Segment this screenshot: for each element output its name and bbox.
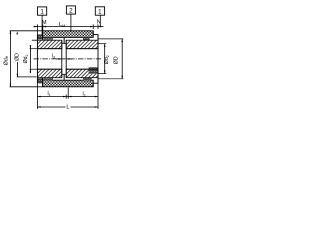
left hub face line [36, 35, 38, 83]
top dimension chain line [34, 26, 104, 28]
sleeve left face line [42, 31, 44, 40]
Od2 extensions [98, 43, 106, 45]
L dimension line [37, 106, 65, 108]
dim line Od1 [29, 45, 31, 73]
box 1 left [38, 7, 47, 15]
OD bottom extension line [17, 76, 37, 78]
bottom mid extension [67, 88, 69, 99]
sleeve teeth strip bottom-right [83, 77, 92, 81]
right hub face line [97, 35, 99, 84]
svg-text:L: L [66, 104, 69, 110]
svg-text:ØD: ØD [113, 56, 119, 64]
OD dim line far right [121, 39, 123, 79]
sleeve teeth strip top-left [43, 37, 53, 39]
center axis dash-dot line [34, 58, 102, 60]
box 2 [66, 6, 75, 14]
l1 l2 dimension line [37, 96, 98, 98]
sleeve teeth strip top-right [83, 37, 90, 40]
svg-text:l2: l2 [82, 92, 85, 98]
svg-text:1: 1 [40, 9, 44, 16]
svg-text:l1: l1 [47, 91, 50, 97]
sleeve center rib top [62, 43, 66, 44]
sleeve top band crosshatch [43, 31, 94, 38]
left hub flange hatch bottom [37, 69, 61, 78]
l3 gap dimension arrows on axis [59, 58, 62, 60]
Od1 extensions [30, 48, 38, 50]
svg-text:N: N [97, 19, 101, 25]
right hub collar top outline [93, 31, 98, 40]
svg-text:M: M [42, 20, 47, 26]
svg-text:2: 2 [69, 8, 73, 15]
right hub collar bottom outline [93, 78, 98, 87]
OD inner dim: top arrowhead [16, 31, 18, 34]
leader from box 1 left [41, 15, 43, 35]
extension bars on top chain [36, 24, 38, 35]
leader from box 1 right [99, 15, 101, 26]
OD right extensions [98, 38, 123, 40]
arrows top chain [34, 26, 37, 28]
svg-text:ØdH: ØdH [3, 55, 9, 65]
bore line bottom [37, 68, 61, 70]
svg-text:LM: LM [59, 22, 65, 28]
svg-text:Ød2: Ød2 [104, 55, 110, 64]
left hub rim dark block bottom [37, 79, 42, 83]
left OD extension top [10, 30, 43, 32]
sleeve center rib bottom [62, 74, 66, 75]
box 1 right [95, 7, 104, 15]
left hub flange hatch top [37, 40, 61, 49]
left OD extension bottom [10, 86, 43, 88]
bore line top [37, 48, 61, 50]
left hub inner face at gap [61, 40, 63, 77]
bottom extension left [36, 83, 38, 109]
sleeve bottom band crosshatch [43, 80, 94, 87]
right hub inner face at gap [65, 40, 67, 77]
svg-text:1: 1 [98, 9, 102, 16]
svg-text:l3: l3 [52, 54, 55, 60]
dim line OdH (left outer) [9, 31, 11, 87]
right hub flange hatch bottom [66, 69, 98, 78]
sleeve teeth strip bottom-left [43, 78, 53, 80]
bottom extension right [97, 83, 99, 109]
OD inner dim: bottom segment [16, 62, 18, 77]
right hub flange hatch top [66, 40, 98, 49]
right hub keyway dark block [89, 67, 98, 74]
Od2 dim line right [104, 44, 106, 74]
leader from box 2 [70, 14, 72, 31]
svg-text:ØD: ØD [14, 53, 20, 61]
left hub rim dark block top [37, 35, 42, 39]
svg-text:Ød1: Ød1 [23, 54, 29, 63]
OD top short extension [32, 39, 38, 41]
